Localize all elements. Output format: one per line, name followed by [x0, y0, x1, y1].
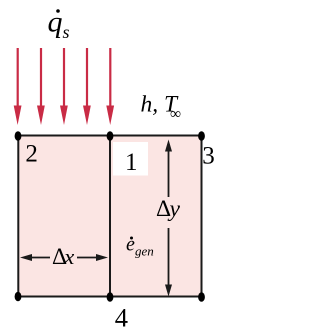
dimension arrow dy: [165, 140, 172, 297]
heat flux arrow 1: [14, 48, 22, 125]
svg-text:y: y: [168, 196, 181, 222]
node bottom-left dot: [15, 292, 22, 302]
node 1 white box: [113, 142, 148, 176]
svg-text:gen: gen: [135, 244, 154, 259]
heat flux arrow 4: [83, 48, 91, 125]
heat flux arrow 5: [106, 48, 114, 125]
convection label h, T_inf: [141, 92, 182, 123]
svg-text:3: 3: [202, 143, 215, 170]
svg-text:2: 2: [25, 141, 38, 168]
wire: left border: [17, 135, 19, 298]
svg-text:e: e: [126, 234, 135, 256]
wire: bottom border: [17, 296, 203, 298]
svg-text:1: 1: [125, 149, 138, 176]
svg-text:s: s: [63, 22, 70, 42]
svg-text:4: 4: [115, 303, 128, 330]
label dx: [52, 244, 74, 270]
wire: right border: [201, 135, 203, 298]
heat flux arrow 2: [37, 48, 45, 125]
wire: middle vertical line: [109, 135, 111, 298]
svg-text:∞: ∞: [170, 106, 181, 123]
node 2 dot: [15, 131, 22, 141]
svg-text:q: q: [48, 6, 63, 39]
node 1 dot: [107, 131, 114, 141]
generation label e_gen: [126, 234, 154, 259]
wire: top border: [17, 135, 203, 137]
node 3 dot: [198, 131, 205, 141]
dimension arrow dx: [20, 254, 108, 261]
heat flux arrow 3: [60, 48, 68, 125]
control volume fill: [18, 136, 202, 298]
node bottom-right dot: [198, 292, 205, 302]
label dy: [156, 196, 181, 222]
svg-text:x: x: [63, 244, 74, 269]
heat flux label q_s: [48, 6, 70, 43]
node 4 dot: [107, 292, 114, 302]
